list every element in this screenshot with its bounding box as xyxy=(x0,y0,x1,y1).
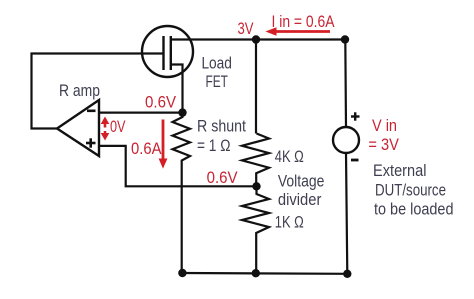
svg-text:= 1 Ω: = 1 Ω xyxy=(197,137,231,155)
svg-text:Load: Load xyxy=(201,55,232,73)
node: 3V rail right corner xyxy=(341,35,349,43)
svg-text:3V: 3V xyxy=(238,20,254,38)
node: ground rail left corner xyxy=(178,269,186,277)
svg-text:4K Ω: 4K Ω xyxy=(275,148,304,166)
svg-text:DUT/source: DUT/source xyxy=(375,182,446,200)
svg-text:FET: FET xyxy=(205,73,228,91)
wire: right branch from 3V rail to source plus terminal xyxy=(344,40,347,128)
node: ground rail right corner xyxy=(343,270,351,278)
node: 1K bottom junction xyxy=(252,269,260,277)
svg-text:1K Ω: 1K Ω xyxy=(275,213,304,231)
svg-text:0.6A: 0.6A xyxy=(131,140,162,158)
annotation 0V down arrow xyxy=(101,131,110,141)
svg-text:to be loaded: to be loaded xyxy=(374,201,454,219)
wire: non-inverting input to divider tap xyxy=(99,146,257,186)
svg-text:External: External xyxy=(373,162,427,180)
svg-text:0.6V: 0.6V xyxy=(145,94,176,112)
node: 3V rail left junction xyxy=(252,35,260,43)
resistor 1K xyxy=(242,186,269,273)
node: FET source junction (0.6V) xyxy=(178,108,186,116)
node: divider tap junction (0.6V) xyxy=(252,182,260,190)
svg-text:= 3V: = 3V xyxy=(368,136,399,154)
op-amp plus input sign xyxy=(86,138,96,147)
op-amp U1 R amp xyxy=(57,100,99,156)
svg-text:Voltage: Voltage xyxy=(278,173,325,191)
resistor 4K xyxy=(242,134,269,187)
voltage source minus sign xyxy=(351,159,359,162)
annotation current arrow for I in xyxy=(265,27,330,36)
op-amp minus input sign xyxy=(87,110,96,113)
svg-text:I in = 0.6A: I in = 0.6A xyxy=(272,13,335,31)
wire: top 3V rail (FET drain to right branch) xyxy=(171,38,345,40)
wire: FET source lead down to shunt node xyxy=(171,65,183,113)
voltage source V in xyxy=(333,127,359,153)
svg-text:0.6V: 0.6V xyxy=(207,169,238,187)
svg-text:V in: V in xyxy=(372,117,397,135)
voltage source plus sign xyxy=(351,112,360,120)
svg-text:R amp: R amp xyxy=(59,82,100,100)
svg-text:0V: 0V xyxy=(110,118,126,136)
resistor R shunt xyxy=(173,113,191,273)
annotation 0V up arrow xyxy=(101,117,110,128)
wire: inverting input to FET source node xyxy=(99,111,183,113)
wire: divider column from 3V rail xyxy=(255,40,257,134)
wire: op-amp output loop to FET gate xyxy=(32,54,164,129)
svg-text:R shunt: R shunt xyxy=(197,117,246,135)
transistor Q1 Load FET xyxy=(142,26,193,77)
annotation current arrow through R shunt xyxy=(159,120,168,169)
wire: source minus terminal to ground rail xyxy=(346,153,347,274)
wire: bottom ground rail xyxy=(182,272,347,275)
svg-text:divider: divider xyxy=(278,191,322,209)
